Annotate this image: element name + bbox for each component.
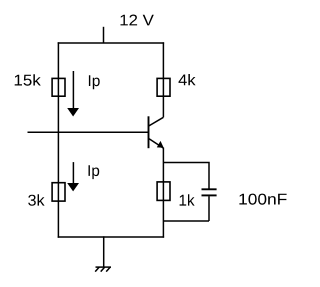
wire left rail <box>57 42 59 237</box>
net 12V supply tick <box>103 27 105 43</box>
label 3k <box>28 194 44 206</box>
label 4k <box>179 74 196 85</box>
transistor Q1 emitter arrowhead <box>157 141 164 148</box>
label 1k <box>180 194 195 205</box>
resistor R1 15k <box>52 78 65 96</box>
label 15k <box>15 74 41 86</box>
wire right rail upper <box>162 42 164 117</box>
current arrow Ip1 <box>67 71 79 117</box>
current arrow Ip2 <box>67 162 79 191</box>
wire right rail lower <box>162 148 164 238</box>
label Ip1 <box>89 75 100 89</box>
wire capacitor branch bottom <box>163 196 209 221</box>
wire ground stem <box>103 236 105 267</box>
label Ip2 <box>89 165 100 179</box>
label 100nF <box>239 194 286 205</box>
wire capacitor branch top <box>163 162 209 189</box>
transistor Q1 base bar <box>148 116 150 148</box>
transistor Q1 emitter <box>149 138 164 148</box>
capacitor C1 plates <box>202 189 217 195</box>
transistor Q1 collector <box>149 117 164 126</box>
resistor R2 4k <box>157 78 170 96</box>
ground <box>95 267 111 272</box>
wire top rail <box>58 42 164 44</box>
label 12 V <box>121 15 154 26</box>
wire base net <box>28 131 149 133</box>
wire bottom rail <box>58 236 164 238</box>
resistor R3 3k <box>52 183 65 201</box>
resistor R4 1k <box>157 182 170 201</box>
